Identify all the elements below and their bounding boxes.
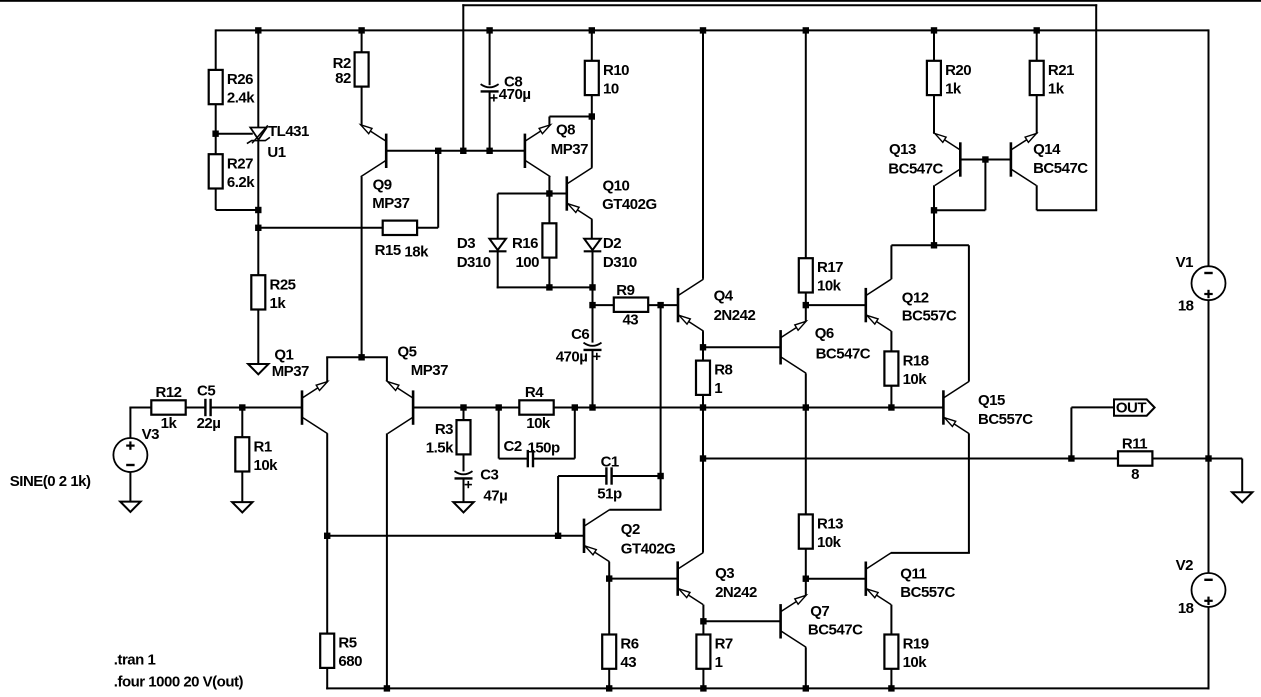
svg-text:2N242: 2N242: [714, 307, 756, 324]
wire C8 to base rail: [489, 91, 491, 150]
wire C1 left lead: [558, 475, 606, 477]
wire top rail to Q4 collector: [702, 30, 704, 279]
svg-text:10k: 10k: [817, 534, 842, 551]
svg-text:6.2k: 6.2k: [227, 174, 255, 191]
transistor Q13 BC547C: [888, 134, 960, 186]
wire node A to TL431 ref: [216, 133, 253, 135]
svg-text:R10: R10: [603, 62, 629, 79]
resistor R25: [251, 275, 295, 312]
wire Q5 emitter riser: [386, 357, 388, 381]
wire Q1 collector to R5: [326, 536, 328, 634]
resistor R19: [884, 635, 928, 672]
wire D-block bottom rail: [497, 286, 593, 288]
ground: [453, 502, 473, 512]
resistor R7: [696, 635, 733, 672]
wire out rail: [703, 458, 1118, 460]
svg-text:R12: R12: [155, 384, 181, 401]
junction: [546, 284, 552, 290]
wire D-block top rail: [498, 193, 567, 195]
svg-text:1k: 1k: [270, 295, 287, 312]
wire R15 right riser: [437, 151, 439, 228]
junction: [324, 533, 330, 539]
wire Q2 emitter to R6: [608, 579, 610, 635]
junction: [255, 207, 261, 213]
wire R10 to node C: [591, 95, 593, 117]
wire mid rail to out rail: [702, 408, 704, 459]
svg-text:8: 8: [1131, 466, 1139, 483]
transistor Q5 MP37: [388, 343, 449, 433]
wire V+ right drop to V1: [1208, 29, 1210, 266]
svg-text:2N242: 2N242: [715, 584, 757, 601]
junction: [589, 27, 595, 33]
junction: [496, 404, 502, 410]
wire node A to R27: [215, 134, 217, 155]
svg-text:.four 1000 20 V(out): .four 1000 20 V(out): [114, 674, 244, 691]
voltage source V2: [1176, 557, 1226, 617]
wire R4 to Q15 base: [554, 407, 944, 409]
svg-text:Q6: Q6: [815, 325, 834, 342]
svg-text:Q10: Q10: [603, 178, 630, 195]
wire Q2 emitter drop: [608, 562, 610, 579]
wire R1 to ground: [241, 472, 243, 503]
junction: [657, 302, 663, 308]
wire R25 to ground: [257, 310, 259, 364]
wire node J rail: [891, 244, 969, 246]
junction: [255, 27, 261, 33]
wire Q2 base rail: [327, 535, 584, 537]
svg-text:1: 1: [714, 380, 722, 397]
wire Q13 base to Q14 base: [960, 159, 1011, 161]
wire top rail: [216, 29, 1209, 31]
junction: [931, 242, 937, 248]
svg-text:47µ: 47µ: [483, 488, 507, 505]
svg-text:Q11: Q11: [900, 565, 926, 582]
svg-text:18: 18: [1178, 600, 1194, 617]
resistor R4: [519, 384, 553, 432]
wire bottom rail: [326, 687, 1209, 689]
wire Q3 emitter to Q7 base: [703, 620, 780, 622]
wire top loop left drop: [462, 4, 464, 151]
wire R12 to C5: [186, 407, 206, 409]
wire OUT flag lead: [1071, 406, 1114, 408]
wire node C to Q10 collector: [591, 117, 593, 168]
junction: [239, 404, 245, 410]
svg-text:680: 680: [338, 653, 362, 670]
wire node J to Q15: [968, 245, 970, 381]
top border: [0, 0, 1261, 2]
svg-text:V1: V1: [1176, 254, 1194, 271]
svg-text:R20: R20: [945, 62, 971, 79]
svg-text:MP37: MP37: [372, 195, 409, 212]
wire Q15 emitter to Q11 collector: [968, 433, 970, 553]
svg-text:C2: C2: [504, 438, 522, 455]
wire R13 to node I: [805, 549, 807, 579]
wire out rail right: [1152, 458, 1242, 460]
transistor Q14 BC547C: [1011, 134, 1088, 186]
ground: [232, 502, 252, 512]
wire mid rail to R13: [805, 408, 807, 515]
wire V3 riser: [129, 408, 131, 439]
wire Q5 collector drop: [386, 433, 388, 688]
svg-text:1k: 1k: [945, 80, 962, 97]
svg-text:U1: U1: [267, 144, 285, 161]
svg-text:22µ: 22µ: [197, 415, 221, 432]
wire node H to Q12 base: [806, 304, 866, 306]
junction: [1068, 455, 1074, 461]
svg-text:D310: D310: [603, 254, 637, 271]
svg-text:R11: R11: [1122, 435, 1147, 452]
wire Q2 collector lead: [609, 509, 661, 511]
junction: [589, 302, 595, 308]
svg-text:V2: V2: [1176, 557, 1194, 574]
resistor R26: [209, 70, 256, 107]
junction: [606, 685, 612, 691]
wire Q8 emitter riser: [548, 117, 550, 125]
resistor R20: [927, 61, 971, 98]
wire C2 right drop: [574, 408, 576, 459]
wire D3 drop: [497, 194, 499, 239]
junction: [358, 354, 364, 360]
wire R9 node to C1 node: [660, 305, 662, 476]
junction: [931, 27, 937, 33]
wire node E to C6: [592, 305, 594, 343]
svg-text:D2: D2: [603, 235, 621, 252]
capacitor C3 (polarized): [455, 466, 508, 504]
svg-text:51p: 51p: [597, 485, 622, 502]
wire D3 to bottom: [497, 251, 499, 288]
transistor Q7 BC547C: [781, 595, 863, 647]
wire C2 left drop: [498, 408, 500, 459]
svg-text:Q4: Q4: [714, 287, 734, 304]
wire R7 to bottom rail: [702, 669, 704, 689]
junction: [982, 156, 988, 162]
svg-text:18: 18: [1178, 297, 1194, 314]
junction: [606, 575, 612, 581]
wire Q8 emitter to node C: [549, 116, 591, 118]
wire R18 to mid rail: [890, 385, 892, 407]
wire R9 to node F: [648, 304, 678, 306]
svg-text:470µ: 470µ: [499, 86, 531, 103]
svg-text:10: 10: [603, 80, 619, 97]
resistor R5: [320, 634, 362, 671]
wire node I to Q11 base: [806, 578, 866, 580]
net label OUT: [1114, 399, 1155, 416]
junction: [803, 302, 809, 308]
junction: [212, 131, 218, 137]
voltage source V3: [113, 426, 159, 472]
resistor R15: [375, 221, 429, 261]
svg-text:R1: R1: [254, 438, 272, 455]
wire Q11 collector rail: [891, 552, 970, 554]
wire Q3 emitter drop: [702, 605, 704, 622]
svg-text:Q14: Q14: [1033, 141, 1061, 158]
svg-text:BC547C: BC547C: [808, 622, 863, 639]
wire R6 to bottom rail: [608, 669, 610, 689]
capacitor C6 (polarized): [556, 326, 602, 365]
svg-text:2.4k: 2.4k: [227, 90, 255, 107]
svg-text:R26: R26: [227, 71, 253, 88]
junction: [589, 113, 595, 119]
wire top loop horizontal: [462, 4, 1097, 6]
wire tail: [326, 356, 388, 358]
svg-text:BC557C: BC557C: [978, 411, 1033, 428]
junction: [1205, 455, 1211, 461]
svg-text:BC557C: BC557C: [902, 308, 957, 325]
wire R15 right lead: [417, 227, 439, 229]
svg-text:R17: R17: [817, 259, 843, 276]
wire R20 to top rail: [933, 30, 935, 61]
wire node B to R25: [257, 228, 259, 275]
wire C5 to Q1 base: [211, 407, 302, 409]
wire Q10 emitter to D2: [591, 219, 593, 239]
resistor R16: [512, 223, 556, 271]
junction: [460, 404, 466, 410]
junction: [657, 473, 663, 479]
wire C1 right lead: [612, 475, 661, 477]
svg-text:R16: R16: [512, 235, 538, 252]
junction: [931, 207, 937, 213]
wire R21 to top rail: [1036, 30, 1038, 61]
junction: [255, 225, 261, 231]
wire V3 to ground: [129, 472, 131, 502]
svg-text:BC547C: BC547C: [888, 161, 943, 178]
transistor Q15 BC557C: [943, 382, 1033, 434]
wire Q9 collector to tail: [361, 177, 363, 357]
resistor R21: [1030, 61, 1074, 98]
wire top rail to R17: [805, 30, 807, 258]
wire Q12 emitter to R18: [890, 331, 892, 352]
resistor R11: [1118, 435, 1152, 483]
wire input rail left: [129, 407, 151, 409]
svg-text:BC557C: BC557C: [900, 584, 955, 601]
wire OUT flag drop: [1070, 407, 1072, 458]
svg-text:R25: R25: [270, 276, 296, 293]
wire Q14 emitter to R21: [1036, 96, 1038, 134]
wire R19 to bottom rail: [890, 669, 892, 689]
wire Q11 emitter to R19: [890, 605, 892, 635]
resistor R1: [235, 437, 278, 474]
ground: [120, 502, 140, 512]
wire node G to R8: [702, 347, 704, 360]
transistor Q9 MP37: [361, 125, 410, 212]
junction: [555, 533, 561, 539]
junction: [700, 404, 706, 410]
wire top rail to R2: [361, 30, 363, 52]
wire top rail to R10: [591, 30, 593, 60]
wire C2 right lead: [533, 458, 575, 460]
junction: [803, 404, 809, 410]
svg-text:D310: D310: [457, 254, 491, 271]
junction: [700, 618, 706, 624]
transistor Q10 GT402G: [567, 168, 657, 220]
svg-text:470µ: 470µ: [556, 349, 588, 366]
transistor Q4 2N242: [678, 279, 755, 331]
junction: [700, 685, 706, 691]
svg-text:10k: 10k: [526, 415, 551, 432]
wire V+ left drop to R26: [215, 29, 217, 70]
wire Q9 base rail: [386, 150, 525, 152]
svg-text:18k: 18k: [404, 244, 429, 261]
svg-text:10k: 10k: [817, 278, 842, 295]
junction: [1034, 27, 1040, 33]
svg-text:V3: V3: [142, 426, 160, 443]
svg-text:C5: C5: [197, 382, 215, 399]
svg-text:10k: 10k: [254, 457, 279, 474]
svg-text:Q13: Q13: [889, 141, 916, 158]
wire V1 to V2: [1208, 300, 1210, 573]
wire Q1 emitter riser: [326, 357, 328, 381]
junction: [435, 148, 441, 154]
wire node D to R16: [548, 194, 550, 224]
wire Q4 emitter to node G: [702, 331, 704, 347]
junction: [589, 284, 595, 290]
wire node G to Q6 base: [703, 346, 781, 348]
capacitor C2: [504, 438, 561, 467]
transistor Q1 MP37: [272, 347, 328, 434]
svg-text:C3: C3: [480, 466, 498, 483]
wire node E to R9: [593, 304, 614, 306]
svg-text:R5: R5: [338, 635, 356, 652]
wire R2 to Q9 emitter: [361, 86, 363, 125]
transistor Q2 GT402G: [584, 510, 675, 562]
transistor Q12 BC557C: [866, 279, 957, 331]
svg-text:1k: 1k: [161, 415, 178, 432]
junction: [384, 685, 390, 691]
svg-text:82: 82: [335, 70, 351, 87]
voltage source V1: [1176, 254, 1226, 315]
svg-text:Q12: Q12: [902, 290, 929, 307]
wire C1 left drop: [557, 476, 559, 536]
wire C3 to ground: [463, 478, 465, 502]
wire C6 to mid rail: [592, 350, 594, 408]
wire C2 left lead: [499, 458, 528, 460]
svg-text:Q8: Q8: [556, 122, 575, 139]
wire R27 corner to TL431 cathode: [216, 209, 259, 211]
wire top rail to C8: [489, 30, 491, 85]
svg-text:SINE(0 2 1k): SINE(0 2 1k): [10, 473, 91, 490]
junction: [486, 27, 492, 33]
resistor R27: [209, 154, 256, 191]
transistor Q3 2N242: [678, 553, 757, 605]
svg-text:C1: C1: [601, 453, 619, 470]
svg-text:OUT: OUT: [1116, 400, 1147, 417]
svg-text:Q2: Q2: [621, 521, 640, 538]
svg-text:C6: C6: [571, 326, 589, 343]
shunt regulator U1 TL431: [247, 123, 309, 161]
svg-text:BC547C: BC547C: [1033, 160, 1088, 177]
resistor R6: [602, 635, 639, 672]
wire node H to Q6 emitter: [805, 305, 807, 321]
transistor Q11 BC557C: [866, 553, 956, 605]
wire base drop: [984, 160, 986, 211]
capacitor C5: [197, 382, 221, 432]
svg-text:43: 43: [622, 311, 638, 328]
resistor R2: [333, 52, 369, 87]
wire Q8 collector drop: [548, 177, 550, 194]
transistor Q8 MP37: [525, 122, 588, 177]
wire R26 to node A: [215, 104, 217, 134]
junction: [358, 27, 364, 33]
svg-text:Q9: Q9: [373, 177, 392, 194]
resistor R9: [614, 282, 648, 329]
svg-text:GT402G: GT402G: [621, 541, 676, 558]
junction: [589, 404, 595, 410]
svg-text:D3: D3: [457, 235, 475, 252]
junction: [888, 404, 894, 410]
wire Q5 base to R4: [413, 407, 519, 409]
wire Q1 collector drop: [326, 433, 328, 535]
junction: [460, 148, 466, 154]
svg-text:R15: R15: [375, 242, 401, 259]
svg-text:BC547C: BC547C: [816, 345, 871, 362]
svg-text:R27: R27: [227, 155, 253, 172]
svg-text:MP37: MP37: [551, 141, 588, 158]
wire R5 to bottom rail: [326, 668, 328, 690]
svg-text:1.5k: 1.5k: [426, 440, 454, 457]
junction: [803, 576, 809, 582]
junction: [700, 27, 706, 33]
diode D3: [457, 235, 507, 271]
svg-text:R18: R18: [903, 352, 929, 369]
wire Q2 emitter to Q3 base: [609, 578, 678, 580]
junction: [572, 404, 578, 410]
svg-text:R9: R9: [616, 282, 634, 299]
svg-text:R13: R13: [817, 515, 843, 532]
wire top rail to TL431 anode: [257, 30, 259, 127]
wire base drop to node K: [934, 209, 985, 211]
wire R8 to mid rail: [702, 395, 704, 408]
resistor R12: [151, 384, 185, 432]
junction: [700, 344, 706, 350]
svg-text:R7: R7: [715, 636, 733, 653]
wire right ground drop: [1241, 459, 1243, 493]
wire Q13 emitter to R20: [933, 96, 935, 134]
resistor R18: [884, 351, 928, 388]
wire C1 node down: [660, 476, 662, 510]
wire Q14 collector drop: [1036, 185, 1038, 210]
capacitor C1: [597, 453, 622, 502]
resistor R17: [799, 258, 843, 295]
svg-text:TL431: TL431: [268, 123, 309, 140]
svg-text:R3: R3: [435, 421, 453, 438]
svg-text:GT402G: GT402G: [602, 196, 657, 213]
wire node I to Q7 emitter: [805, 579, 807, 596]
wire R1 drop: [241, 408, 243, 438]
svg-text:100: 100: [515, 254, 539, 271]
svg-text:Q3: Q3: [715, 565, 734, 582]
svg-text:R6: R6: [620, 636, 638, 653]
wire Q14 collector to loop: [1037, 209, 1098, 211]
transistor Q6 BC547C: [781, 321, 871, 373]
wire node B to R15 left: [258, 227, 383, 229]
resistor R13: [799, 514, 843, 551]
wire R17 to node H: [805, 292, 807, 305]
svg-text:150p: 150p: [528, 439, 561, 456]
wire R27 to corner: [215, 188, 217, 210]
svg-text:MP37: MP37: [411, 362, 448, 379]
junction: [700, 455, 706, 461]
junction: [888, 685, 894, 691]
svg-text:Q5: Q5: [398, 343, 417, 360]
svg-text:Q7: Q7: [810, 603, 829, 620]
svg-text:R8: R8: [714, 362, 732, 379]
resistor R10: [585, 61, 629, 98]
capacitor C8 (polarized): [481, 74, 531, 104]
svg-text:1: 1: [715, 654, 723, 671]
wire Q6 collector to mid rail: [805, 373, 807, 407]
svg-text:Q1: Q1: [274, 347, 293, 364]
wire top loop right drop: [1095, 4, 1097, 210]
